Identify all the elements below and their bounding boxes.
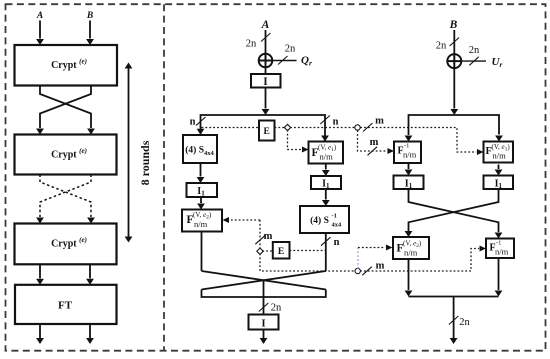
block I1b [311, 176, 341, 190]
slash m on node4 wire [362, 267, 372, 276]
slash n on Sinv output [321, 237, 331, 246]
block I2 (bottom) [249, 315, 279, 330]
dotted wire node2 down to F3 [358, 130, 388, 151]
svg-text:m: m [264, 231, 273, 242]
svg-text:FT: FT [58, 299, 73, 311]
wire Crypt3 to FT right [89, 264, 91, 278]
slash n left branch [196, 117, 206, 126]
slash 2n on Qr wire [278, 56, 288, 65]
svg-text:E: E [264, 127, 270, 137]
svg-text:B: B [86, 11, 93, 21]
svg-text:Qr: Qr [301, 55, 312, 68]
svg-text:2n: 2n [285, 44, 296, 55]
wire XOR2 to split with arrow [453, 68, 455, 108]
arrow into S box [197, 129, 205, 135]
svg-text:n: n [334, 237, 340, 248]
block F3 (F inverse) [394, 142, 421, 164]
wire F4 to I1d [498, 165, 500, 170]
blue dotted wire node4 up [357, 248, 359, 269]
svg-text:A: A [261, 19, 270, 31]
block I (top) [251, 74, 281, 88]
svg-text:-1: -1 [496, 240, 501, 247]
dotted wire to F5 left [358, 247, 386, 249]
8 rounds double arrow [125, 63, 133, 243]
svg-text:2n: 2n [246, 39, 257, 50]
block E1 [259, 121, 275, 141]
svg-text:4x4: 4x4 [332, 222, 343, 229]
wire S to I1a [200, 163, 202, 177]
svg-text:n/m: n/m [403, 150, 417, 160]
split bus wire (right half) [409, 115, 500, 135]
slash 2n on right output [449, 316, 459, 325]
dotted wire swap X between Crypt2 and Crypt3 [40, 175, 91, 218]
svg-text:E: E [278, 247, 284, 257]
block I1c [394, 176, 424, 191]
node3 junction circle [257, 248, 263, 254]
svg-text:n/m: n/m [320, 152, 334, 162]
svg-text:I: I [261, 318, 265, 330]
dotted wire node1 down to F1 [288, 130, 302, 150]
wire A into Crypt1 [39, 21, 41, 39]
junction bus wire [409, 296, 499, 298]
wire butterfly centre down to I2 [263, 280, 265, 314]
svg-text:n/m: n/m [493, 151, 507, 161]
xor XOR1 [259, 54, 273, 68]
wire I1a to F2 [200, 197, 202, 203]
svg-text:n: n [333, 117, 339, 128]
dotted wire node3 to E2 [262, 250, 273, 252]
block Crypt1 [15, 45, 118, 86]
wire Crypt3 to FT left [39, 264, 41, 278]
svg-text:n: n [190, 117, 196, 128]
svg-text:n/m: n/m [495, 247, 509, 257]
dotted wire into F2 right edge [230, 219, 260, 221]
block F2 (V,e2) [182, 210, 222, 232]
svg-text:-1: -1 [332, 213, 337, 220]
slash 2n on B wire [450, 38, 460, 47]
slash 2n on Ur wire [469, 57, 479, 66]
wire A to XOR1 [265, 30, 267, 54]
block E2 [273, 242, 290, 259]
svg-text:2n: 2n [436, 41, 447, 52]
wire F2 down [201, 231, 203, 271]
slash m on node2 wire [363, 123, 373, 132]
slash 2n on A wire [261, 33, 271, 42]
wire B into Crypt1 [89, 21, 91, 39]
slash m on F3 feed wire [368, 147, 378, 156]
block Crypt3 [15, 224, 117, 265]
dotted wire node2 onward to F4 (crosses into right half) [360, 128, 476, 153]
block F4 (V,e1) [484, 142, 514, 163]
wire Qr into XOR1 [272, 60, 296, 62]
wire XOR1 to I box [265, 67, 267, 74]
svg-text:8 rounds: 8 rounds [138, 140, 152, 185]
block S inverse 4x4 [300, 206, 349, 233]
wire F5 down to junction [408, 259, 410, 290]
svg-text:n/m: n/m [194, 219, 208, 229]
block F6 (F inverse) [486, 239, 514, 259]
svg-text:-1: -1 [404, 143, 409, 150]
output wire left of FT [39, 324, 41, 339]
wire swap X to F5/F6 [409, 189, 499, 232]
output arrow left half [263, 330, 265, 339]
block F5 (V,e2) [393, 237, 429, 259]
wire F1 to I1b [325, 164, 327, 170]
slash 2n on output [259, 303, 269, 312]
dotted wire E1 to node1 to node2 [275, 127, 356, 129]
dotted wire branch tap to E1 [202, 127, 260, 129]
node4 junction circle [355, 268, 360, 273]
svg-text:(4) S: (4) S [310, 215, 329, 226]
block I1a [187, 183, 218, 198]
svg-text:m: m [375, 116, 384, 127]
svg-text:I: I [263, 76, 268, 88]
svg-text:2n: 2n [271, 303, 282, 314]
svg-text:m: m [370, 137, 379, 148]
block S 4x4 [183, 135, 217, 163]
wire Ur into XOR2 [461, 60, 486, 62]
arrow into F1 box [321, 136, 329, 142]
svg-text:n/m: n/m [404, 248, 418, 258]
wire Sinv down [325, 233, 327, 271]
panel divider dashed line [163, 4, 165, 351]
dotted wire node3 down to node4 [260, 254, 355, 272]
wire I1b to Sinv [325, 189, 327, 200]
slash m on node3 wire [255, 236, 264, 245]
wire F6 down to junction [498, 258, 500, 290]
svg-text:A: A [36, 11, 43, 21]
dotted wire E2 to Sinv output line [290, 250, 326, 252]
slash n right branch [320, 116, 330, 125]
block F1 (V,e1) [309, 142, 344, 164]
wire F3 to I1c [408, 164, 410, 169]
svg-text:Ur: Ur [492, 56, 503, 69]
butterfly cross diagonals [202, 271, 326, 290]
block FT [15, 285, 117, 324]
node1 junction circle [284, 124, 290, 130]
svg-text:m: m [376, 261, 385, 272]
dotted wire node4 to F6 [360, 249, 479, 272]
dotted wire vertical to node3 [259, 220, 261, 249]
wire B to XOR2 [453, 30, 455, 54]
node2 junction circle [355, 125, 360, 130]
wire I to split with arrow [265, 88, 267, 109]
svg-text:B: B [449, 19, 458, 31]
svg-text:2n: 2n [459, 317, 470, 328]
xor XOR2 [447, 54, 461, 68]
output wire right half [453, 297, 455, 339]
svg-text:2n: 2n [469, 45, 480, 56]
butterfly bar [202, 290, 326, 298]
block I1d [484, 176, 514, 191]
wire swap X between Crypt1 and Crypt2 [40, 86, 91, 129]
arrow into F3 box [405, 136, 413, 142]
split bus wire (left half) [201, 115, 326, 141]
block Crypt2 [15, 135, 117, 175]
output wire right of FT [89, 324, 91, 339]
arrow into F4 box [495, 136, 503, 142]
